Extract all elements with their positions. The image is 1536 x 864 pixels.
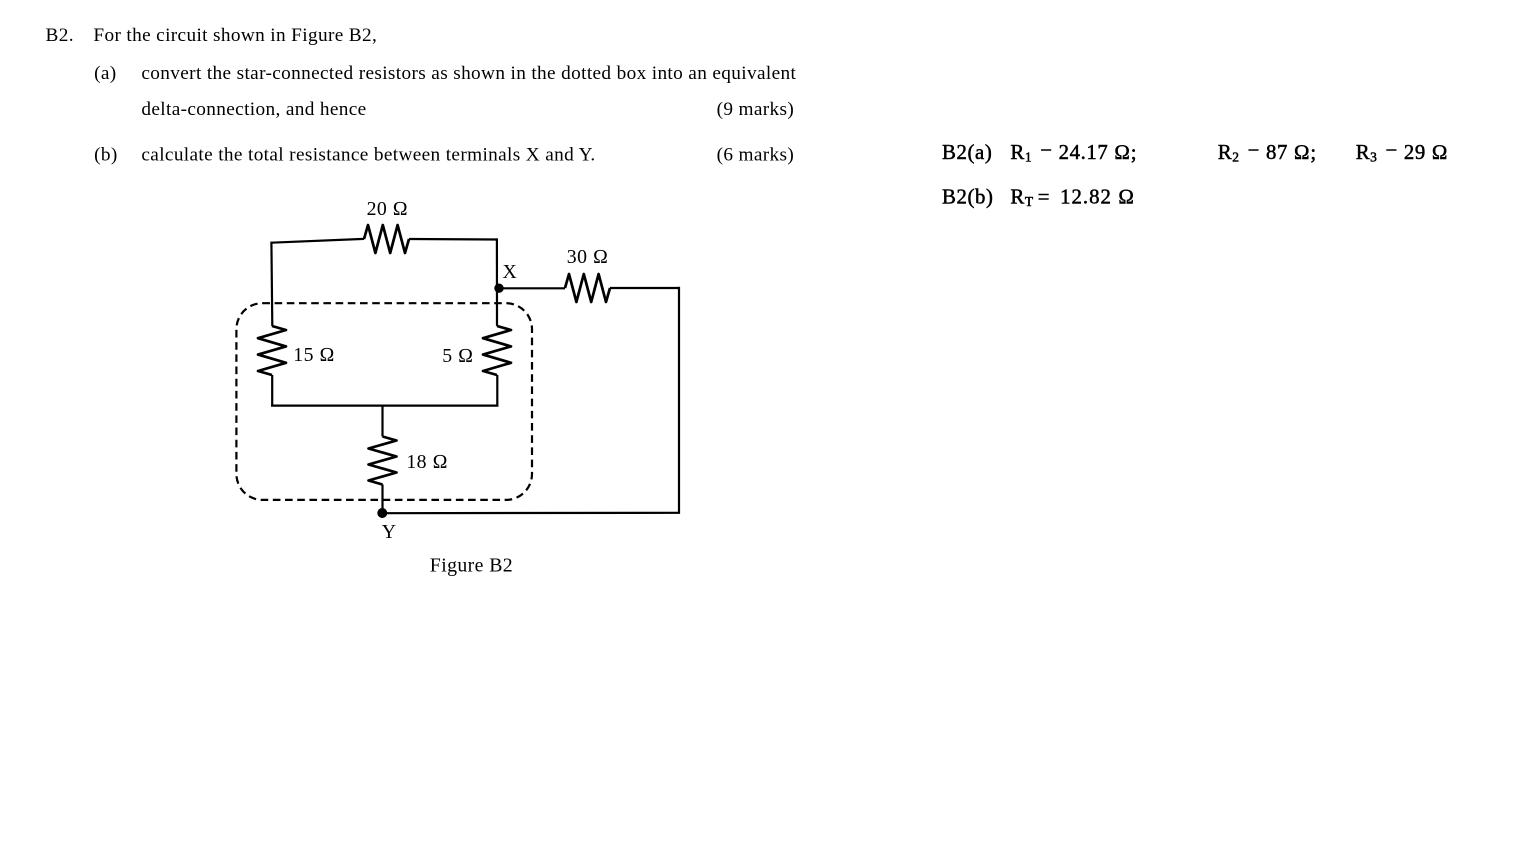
resistor 15 ohm bbox=[258, 326, 286, 375]
wire: bottom of outer loop to node Y bbox=[382, 512, 680, 515]
wire: 30ohm to right corner bbox=[610, 287, 680, 289]
wire: top-right vertical down to node X and 5ohm bbox=[496, 238, 498, 326]
wire: 15ohm to inner bottom wire bbox=[271, 375, 273, 407]
answer B2(b) RT value bbox=[942, 186, 1135, 210]
svg-text:18 Ω: 18 Ω bbox=[406, 451, 448, 473]
wire: node X to 30ohm bbox=[499, 287, 565, 289]
svg-text:B2(b): B2(b) bbox=[942, 186, 994, 209]
svg-text:Figure B2: Figure B2 bbox=[430, 555, 513, 577]
svg-text:B2.: B2. bbox=[46, 25, 74, 46]
svg-text:B2(a): B2(a) bbox=[942, 141, 992, 164]
resistor 20 ohm bbox=[364, 225, 409, 253]
svg-text:R3−29 Ω: R3−29 Ω bbox=[1356, 139, 1449, 165]
svg-text:Y: Y bbox=[382, 521, 397, 543]
svg-text:30 Ω: 30 Ω bbox=[567, 246, 609, 268]
resistor 30 ohm bbox=[565, 274, 610, 302]
wire: middle vertical (inner bottom to 18ohm) bbox=[381, 406, 383, 437]
svg-text:R1−24.17 Ω;: R1−24.17 Ω; bbox=[1010, 139, 1137, 165]
svg-text:(b): (b) bbox=[94, 145, 118, 166]
svg-text:20 Ω: 20 Ω bbox=[367, 198, 409, 220]
svg-text:(9 marks): (9 marks) bbox=[717, 99, 795, 120]
svg-text:R2−87 Ω;: R2−87 Ω; bbox=[1218, 139, 1317, 165]
wire: top-left horizontal (left node to 20ohm) bbox=[272, 239, 365, 243]
svg-text:convert the star-connected res: convert the star-connected resistors as … bbox=[141, 63, 796, 84]
node Y dot bbox=[377, 508, 387, 518]
node X dot bbox=[494, 284, 503, 293]
resistor 5 ohm bbox=[483, 326, 511, 375]
svg-text:calculate the total resistance: calculate the total resistance between t… bbox=[141, 145, 595, 166]
svg-text:X: X bbox=[503, 261, 518, 283]
question line 1 text bbox=[46, 25, 378, 46]
svg-text:delta-connection, and hence: delta-connection, and hence bbox=[141, 99, 366, 120]
svg-text:RT=12.82 Ω: RT=12.82 Ω bbox=[1010, 186, 1135, 210]
wire: top horizontal (20ohm to top-right corner) bbox=[409, 238, 497, 241]
svg-text:(a): (a) bbox=[94, 63, 116, 84]
resistor 18 ohm bbox=[369, 437, 397, 485]
svg-text:(6 marks): (6 marks) bbox=[717, 145, 795, 166]
answer B2(a) R2 value bbox=[1218, 139, 1317, 165]
wire: right vertical of outer loop bbox=[678, 287, 680, 514]
wire: left vertical (top wire to 15ohm) bbox=[270, 242, 273, 326]
question item (b) with marks bbox=[94, 145, 794, 166]
svg-text:For the circuit shown in Figur: For the circuit shown in Figure B2, bbox=[93, 25, 377, 46]
dashed star-connection boundary box bbox=[236, 303, 532, 500]
wire: 18ohm down to node Y bbox=[381, 485, 383, 514]
wire: 5ohm to inner bottom wire bbox=[496, 375, 498, 407]
svg-text:5 Ω: 5 Ω bbox=[442, 345, 473, 367]
answer B2(a) R1 value bbox=[942, 139, 1137, 165]
question item (a) line 2 with marks bbox=[141, 99, 794, 120]
answer B2(a) R3 value bbox=[1356, 139, 1449, 165]
svg-text:15 Ω: 15 Ω bbox=[293, 344, 335, 366]
wire: inner bottom horizontal bbox=[271, 405, 498, 407]
question item (a) line 1 bbox=[94, 63, 796, 84]
